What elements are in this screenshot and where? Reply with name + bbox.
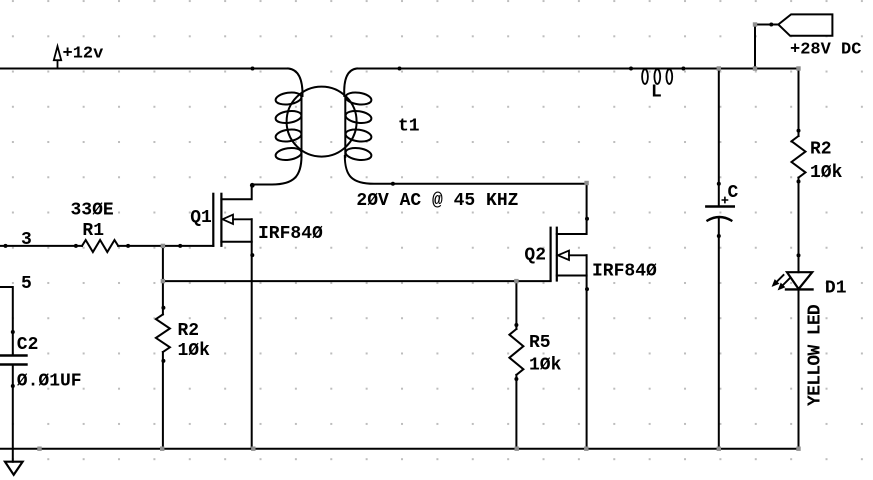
transistor Q1 source stub (221, 241, 251, 243)
svg-text:C: C (728, 183, 739, 203)
wire riser to +28V connector (755, 25, 778, 69)
junction squares (gray) (37, 22, 800, 451)
wire gate bus to Q2 (163, 280, 551, 282)
svg-text:Q2: Q2 (524, 245, 546, 265)
wire transformer primary bottom lead (252, 156, 302, 185)
wire Q1 source to bottom rail (251, 219, 253, 448)
wire R1 to Q1 gate (118, 245, 213, 247)
wire top rail left segment (0, 68, 288, 70)
wire node 3 input (0, 245, 82, 247)
transformer t1 secondary winding loops (345, 91, 372, 162)
svg-text:Q1: Q1 (190, 208, 212, 228)
transistor Q2 body arrow (558, 251, 587, 260)
wire gate node vertical (162, 246, 164, 315)
transistor Q1 channel bar (220, 194, 222, 246)
ground symbol (5, 462, 23, 475)
connector +28V DC flag (778, 14, 832, 35)
transistor Q1 gate bar (212, 194, 214, 246)
svg-text:1Øk: 1Øk (810, 163, 843, 183)
transistor Q1 drain stub (221, 185, 251, 199)
transistor Q2 source stub (557, 275, 587, 277)
transistor Q1 body arrow (223, 215, 252, 224)
svg-text:C2: C2 (17, 335, 39, 355)
wire top rail right segment (357, 68, 799, 70)
wire LED to bottom rail (798, 289, 800, 448)
svg-text:D1: D1 (825, 278, 847, 298)
junction dots (black) (4, 23, 801, 389)
svg-text:5: 5 (21, 274, 32, 294)
wire transformer secondary top lead (344, 69, 357, 97)
svg-text:1Øk: 1Øk (529, 356, 562, 376)
inductor L loops (642, 69, 672, 84)
svg-text:YELLOW LED: YELLOW LED (806, 304, 826, 406)
transistor Q2 drain stub (557, 184, 587, 234)
svg-text:1Øk: 1Øk (178, 341, 211, 361)
wire R2 right branch top lead (798, 69, 800, 137)
wire R5 branch top lead (515, 281, 517, 329)
wire node 5 input (0, 287, 13, 355)
resistor R1 zigzag (82, 240, 118, 252)
svg-text:IRF84Ø: IRF84Ø (592, 262, 657, 282)
svg-text:3: 3 (21, 230, 32, 250)
wire capacitor C branch bottom (718, 219, 720, 449)
resistor R2 right zigzag (792, 136, 806, 178)
svg-text:R1: R1 (82, 221, 104, 241)
power symbol +12v arrow (54, 46, 61, 68)
svg-text:33ØE: 33ØE (71, 200, 114, 220)
LED D1 emission arrows (773, 275, 790, 290)
capacitor C plates (706, 207, 734, 221)
transistor Q2 channel bar (556, 228, 558, 281)
capacitor C2 plates (0, 356, 27, 365)
transistor Q2 gate bar (549, 228, 551, 281)
LED D1 triangle (787, 272, 812, 289)
LED D1 cathode bar (786, 288, 813, 290)
wire R2 right to LED (798, 178, 800, 273)
svg-text:R2: R2 (810, 140, 832, 160)
svg-text:R2: R2 (178, 321, 200, 341)
transformer t1 primary winding loops (275, 91, 302, 162)
svg-text:+28V DC: +28V DC (790, 41, 861, 60)
wire transformer secondary bottom lead to Q2 drain (345, 156, 587, 184)
wire R5 to bottom rail (515, 375, 517, 449)
wire bottom ground rail (0, 448, 799, 450)
transformer t1 core circle (287, 87, 357, 157)
wire Q2 source to bottom rail (586, 255, 588, 448)
wire R2 left to bottom rail (162, 352, 164, 449)
svg-text:IRF84Ø: IRF84Ø (258, 224, 323, 244)
svg-text:t1: t1 (398, 117, 420, 137)
capacitor C plus sign (722, 197, 727, 202)
svg-text:Ø.Ø1UF: Ø.Ø1UF (17, 371, 82, 391)
resistor R5 zigzag (509, 329, 523, 375)
wire transformer primary top lead (288, 69, 302, 97)
svg-text:L: L (651, 83, 662, 103)
svg-text:R5: R5 (529, 333, 551, 353)
svg-text:2ØV AC @ 45 KHZ: 2ØV AC @ 45 KHZ (356, 191, 518, 211)
wire C2 to ground (12, 366, 14, 462)
resistor R2 left zigzag (156, 314, 170, 352)
svg-text:+12v: +12v (63, 45, 104, 64)
wire capacitor C branch top (718, 69, 720, 207)
